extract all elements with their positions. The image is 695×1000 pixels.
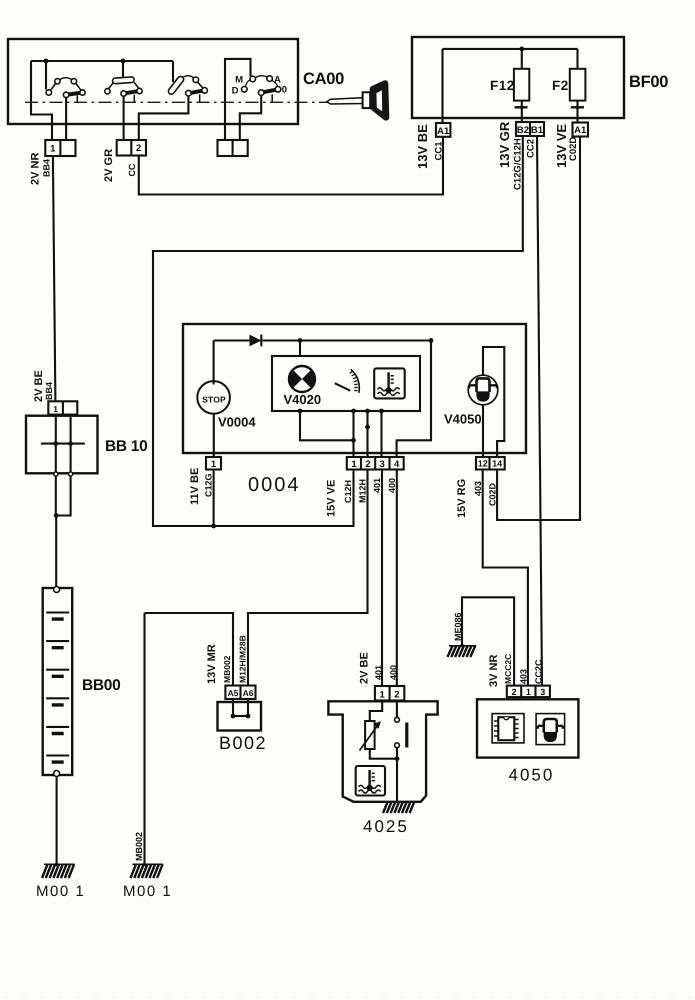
svg-text:B1: B1	[531, 125, 544, 136]
connector pins B2 B1	[516, 122, 544, 136]
svg-text:V4050: V4050	[444, 412, 482, 427]
svg-text:MB002: MB002	[134, 832, 144, 861]
connector 1 2 on 4025	[375, 686, 404, 701]
lamp V4020	[289, 365, 315, 392]
svg-text:400: 400	[387, 478, 397, 493]
coolant temperature gauge icon	[374, 368, 405, 398]
svg-text:C02D: C02D	[568, 137, 579, 161]
ignition rotary switch S4 (M A D 0)	[225, 59, 281, 140]
svg-text:4050: 4050	[509, 766, 555, 785]
svg-text:2V NR: 2V NR	[30, 153, 42, 185]
svg-text:403: 403	[519, 669, 529, 684]
junction unit BB10 entry connector	[48, 401, 77, 414]
wire battery to ground	[56, 777, 58, 866]
junction dot bus/switch1	[44, 59, 49, 64]
wire bus to connector A1 (CC1)	[441, 49, 443, 124]
junction dot rail/V4020 box	[298, 338, 303, 343]
control unit 4050	[477, 699, 578, 757]
svg-text:0004: 0004	[248, 474, 301, 496]
0004 connector pins 1-4	[347, 457, 404, 470]
0004 internal top rail	[214, 339, 431, 341]
svg-text:3: 3	[540, 687, 545, 697]
wire 400: 0004 pin4 to 4025	[396, 470, 398, 687]
svg-text:CA00: CA00	[303, 70, 344, 88]
svg-text:13V MR: 13V MR	[206, 644, 218, 684]
wire MCC2C: 4050 pin2 up and across to ground ME086	[462, 597, 514, 685]
BF00 internal bus	[443, 48, 578, 50]
svg-text:MB002: MB002	[222, 655, 232, 683]
ground ME086	[448, 644, 477, 657]
gauge module box (V4020)	[272, 356, 420, 411]
fuse box BF00	[412, 37, 624, 118]
ignition switch unit CA00	[8, 39, 298, 124]
junction dot C12G tap on feed rail	[211, 524, 216, 529]
0004 connector pin 1 (C12G)	[206, 457, 221, 470]
svg-text:401: 401	[372, 478, 382, 493]
B002 internal strap	[233, 699, 248, 716]
svg-text:1: 1	[380, 689, 386, 700]
svg-text:CC2: CC2	[526, 139, 537, 158]
svg-text:C12H: C12H	[343, 480, 353, 503]
svg-text:401: 401	[374, 665, 384, 680]
svg-text:2: 2	[365, 459, 370, 470]
svg-text:14: 14	[492, 459, 502, 469]
svg-text:2V GR: 2V GR	[103, 149, 115, 182]
svg-text:D: D	[232, 85, 239, 96]
wire CC2: B1 down to 4050 pin 3	[537, 136, 542, 686]
switch contact S2	[105, 61, 142, 140]
BB10 internal wires	[41, 415, 85, 473]
svg-text:13V BE: 13V BE	[415, 124, 430, 169]
wire pin1 C12G down to feed rail	[213, 470, 215, 527]
connector 1 under CA00 (2V NR)	[45, 140, 75, 156]
svg-text:STOP: STOP	[202, 395, 226, 405]
svg-text:ME086: ME086	[453, 612, 463, 641]
svg-text:4: 4	[394, 459, 400, 470]
junction dot merge	[54, 513, 59, 518]
ground M001 (battery)	[42, 863, 75, 878]
thermistor in 4025	[360, 721, 381, 751]
CA00 internal supply bus	[31, 60, 173, 62]
junction dot 4025	[395, 756, 400, 761]
svg-text:1: 1	[53, 404, 58, 414]
svg-text:CC2C: CC2C	[534, 659, 544, 684]
connection unit B002	[218, 702, 262, 731]
connector pin A1 (CC1)	[436, 123, 450, 137]
bulb icon in 4050	[536, 714, 565, 745]
svg-text:1: 1	[211, 459, 217, 470]
wire 13V GR: B2 down, across, down to 0004 feed rail	[153, 136, 523, 526]
svg-text:M12H/M28B: M12H/M28B	[238, 635, 248, 683]
junction dots on gauge module bottom	[298, 409, 303, 414]
svg-text:A5: A5	[228, 688, 239, 698]
svg-text:MCC2C: MCC2C	[503, 654, 513, 684]
svg-text:3V NR: 3V NR	[488, 655, 500, 687]
svg-text:A: A	[274, 75, 281, 86]
svg-text:2: 2	[511, 687, 516, 697]
IC icon in 4050	[492, 714, 524, 743]
svg-text:2V BE: 2V BE	[359, 652, 371, 684]
junction unit BB10	[26, 416, 98, 474]
svg-text:A6: A6	[243, 688, 254, 698]
connector A5 A6 on B002	[225, 686, 255, 700]
temperature switch/sensor 4025 body	[328, 701, 437, 802]
svg-text:15V RG: 15V RG	[456, 479, 468, 518]
svg-text:F2: F2	[552, 78, 569, 93]
junction dot bus/F12	[519, 47, 524, 52]
svg-text:400: 400	[388, 665, 398, 680]
0004 connector pins 12 14	[476, 457, 505, 470]
diamond splice on pin 2 wire	[365, 423, 371, 431]
junction dot branch/pin1 wire	[351, 438, 356, 443]
wire bus to connector 1 (L path)	[31, 61, 52, 140]
wire module to pin 1 (left branch)	[300, 411, 354, 440]
svg-text:13V VE: 13V VE	[554, 124, 569, 168]
wire 13V VE / C02D: A1 down, across, up to 0004 pin 14	[497, 137, 580, 521]
svg-text:13V GR: 13V GR	[497, 121, 512, 168]
svg-text:1: 1	[526, 687, 531, 697]
svg-text:BB00: BB00	[82, 677, 120, 694]
wires BB10 to battery merge	[56, 476, 71, 588]
junction dot bus/switch2	[121, 59, 126, 64]
ground hatch under 4025	[383, 802, 414, 813]
wire M12H: 0004 pin2 down across to B002 A6	[248, 470, 368, 686]
switch contact S1	[46, 61, 85, 140]
wire rail to gauge module	[299, 341, 301, 357]
switch contact S3	[139, 61, 208, 140]
coolant temperature icon in 4025	[356, 766, 385, 796]
svg-text:BB 10: BB 10	[105, 438, 147, 455]
svg-text:M: M	[235, 75, 243, 86]
instrument cluster 0004	[183, 324, 526, 453]
connector 2 under CA00 (2V GR)	[117, 140, 146, 156]
svg-text:4025: 4025	[363, 817, 409, 836]
svg-text:M00 1: M00 1	[123, 883, 172, 900]
warning lamp V0004 (STOP)	[197, 341, 230, 458]
svg-text:403: 403	[473, 481, 483, 496]
diode in rail	[250, 335, 262, 347]
bulb check lamp V4050	[468, 347, 504, 457]
svg-text:12: 12	[478, 459, 488, 469]
mechanical coupling dash-dot line	[25, 101, 329, 103]
svg-text:1: 1	[50, 144, 56, 155]
svg-text:3: 3	[380, 459, 385, 470]
svg-text:CC: CC	[127, 163, 137, 176]
svg-text:2: 2	[136, 143, 141, 154]
svg-text:A1: A1	[574, 125, 587, 136]
fuse F12	[514, 49, 529, 122]
svg-text:CC1: CC1	[434, 141, 445, 161]
svg-text:C12G: C12G	[204, 473, 214, 497]
svg-text:M12H: M12H	[358, 479, 368, 503]
wire module to pin 1	[352, 411, 354, 457]
wire CC: connector2 to fuse box CC1	[139, 137, 443, 195]
svg-text:1: 1	[351, 459, 357, 470]
battery cells	[46, 613, 69, 763]
svg-text:BB4: BB4	[44, 382, 54, 400]
svg-text:B002: B002	[219, 733, 267, 753]
svg-text:11V BE: 11V BE	[189, 468, 201, 505]
temperature switch contact in 4025	[395, 701, 407, 802]
connector 2 1 3 on 4050	[507, 686, 550, 698]
svg-text:BF00: BF00	[629, 73, 668, 91]
svg-text:B2: B2	[517, 125, 529, 136]
wire 403: 0004 pin12 down across to 4050 pin1	[483, 470, 528, 686]
svg-text:0: 0	[282, 85, 287, 96]
battery BB00	[43, 587, 72, 777]
svg-text:V4020: V4020	[284, 392, 322, 407]
wire rail end down to pin 4	[397, 341, 431, 458]
svg-text:BB4: BB4	[42, 159, 52, 177]
svg-text:A1: A1	[437, 126, 450, 137]
svg-text:M00 1: M00 1	[36, 883, 85, 900]
4025 internal wire pin1 to thermistor	[370, 701, 382, 722]
gauge needle icon	[335, 369, 360, 393]
ignition key symbol	[327, 80, 390, 120]
wire MB002: B002 A5 up and across	[145, 613, 234, 686]
wire module to pin 2	[366, 411, 368, 457]
wire module to pin 3	[380, 411, 382, 457]
connector pin A1 (C02D)	[573, 123, 589, 137]
svg-text:F12: F12	[490, 78, 515, 93]
svg-text:C02D: C02D	[488, 482, 498, 506]
fuse F2	[570, 49, 586, 123]
svg-text:2: 2	[394, 689, 399, 700]
ground M001 (MB002)	[131, 863, 164, 878]
junction dots in BB10	[53, 441, 58, 446]
wire 2V NR down to BB10	[53, 156, 56, 401]
svg-text:15V VE: 15V VE	[326, 480, 338, 517]
faint page edge dashes	[4, 997, 692, 999]
connector 3 under CA00 (unused)	[218, 140, 248, 156]
junction dot rail end	[429, 338, 434, 343]
wire 401: 0004 pin3 to 4025	[381, 470, 383, 687]
wire MB002 to ground	[143, 613, 145, 865]
svg-text:V0004: V0004	[218, 415, 256, 430]
wire thermistor to switch	[370, 749, 397, 759]
